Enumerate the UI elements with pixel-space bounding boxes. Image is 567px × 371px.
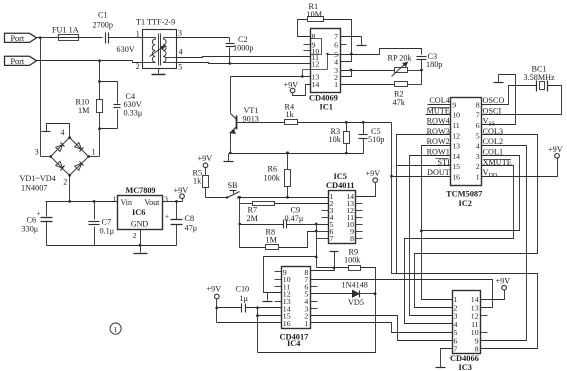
IC2 left label stub wires COL4 MUTE ROW4 [428,104,451,106]
svg-text:1N4007: 1N4007 [21,183,47,192]
svg-text:IC5: IC5 [334,172,348,181]
wire: ROW1 down to IC3 pin 3 [410,156,453,316]
wire: branch down to bottom loop [257,316,259,353]
svg-text:VD5: VD5 [348,298,364,307]
svg-text:ROW2: ROW2 [427,137,450,146]
wire: IC6 GND pin 2 down to bottom rail and ground [140,230,142,253]
potentiometer RP 20k [395,68,408,73]
resistor R2 47k [395,82,408,87]
svg-text:IC2: IC2 [459,199,473,208]
bottom supply rail [47,245,177,247]
svg-text:47k: 47k [393,98,406,107]
svg-text:C7: C7 [102,217,112,226]
IC U1: CD4069 IC1 body [311,29,341,93]
svg-text:1: 1 [334,80,338,89]
wire: pins5/6 node down, pin7 stub, to R9 line [316,232,318,268]
capacitor C9 0.47u [240,224,284,226]
wire: VD5 node down and around IC4 bottom [258,294,376,353]
wire: SB to IC5 pin 1 [239,197,329,199]
svg-text:3: 3 [164,195,168,204]
svg-text:+9V: +9V [174,186,189,195]
terminal +9V above R5 [203,163,208,168]
svg-text:+9V: +9V [548,145,563,154]
IC5 pin 4 nc stub [322,217,329,219]
svg-text:630V: 630V [117,45,135,54]
svg-text:+9V: +9V [366,169,381,178]
svg-text:C6: C6 [27,215,37,224]
svg-text:4: 4 [179,48,183,57]
node: R6 bottom junction [286,196,289,199]
node: C9 wire start [238,223,241,226]
wire: OSCO pin8 to crystal [482,86,537,105]
wire: STI joins ROW3 vertical [397,165,451,167]
wire: vertical from P1 junction down to bridge node 3 [40,38,42,157]
wire: IC1 pin 5 jog right [341,54,380,56]
wire: vertical from P2 line down through R10 [98,59,101,62]
svg-text:1μ: 1μ [240,294,249,303]
svg-text:14: 14 [312,80,320,89]
node: pin3/pin2 junction [350,69,353,72]
svg-text:8: 8 [476,100,480,109]
port P1 (upper mains input connector) [5,33,37,42]
svg-text:100k: 100k [344,255,361,264]
T1 adjustable-core arrow [150,47,164,57]
IC1 internal link pin5 to pin13 node [328,54,340,56]
wire: line A to IC4 pin12/ground [264,257,317,293]
svg-text:CD4011: CD4011 [326,181,354,190]
svg-text:0.47μ: 0.47μ [285,214,304,223]
resistor R7 2M [253,202,275,206]
wire: rectified + rail to IC6 Vin [46,201,118,203]
wire: IC4 pin 1 to IC3 pin 5 [311,323,453,333]
regulator IC6 MC7809 [118,196,163,230]
ground under T1 center tap [158,69,160,74]
wire: node 2 down to rectified rail [69,176,71,202]
svg-text:1: 1 [136,29,140,38]
capacitor C1 2700p [105,33,107,44]
svg-text:330μ: 330μ [22,225,39,234]
node: bridge output on rail [68,200,71,203]
wire: +9V down to C10 line and pin 16 [216,299,218,323]
wire: IC1 pin 1 to R2 [341,84,395,86]
terminal +9V at Vdd pin1 [482,159,558,177]
svg-text:180p: 180p [426,60,442,69]
wire: R9 right lead down to VD5 cathode node [361,268,376,294]
wire: R4 to R3/C5 line and bundle [298,122,392,124]
node: pin15/bottom-loop branch [256,314,259,317]
svg-text:+9V: +9V [198,154,213,163]
svg-text:1000p: 1000p [233,43,253,52]
capacitor C10 1u [217,307,242,309]
node: R3 top [345,121,348,124]
switch SB (pushbutton) [206,197,228,199]
svg-text:C8: C8 [185,214,195,223]
svg-text:2700p: 2700p [93,21,113,30]
node: T-bar/IC4 pin8 junction on R9 line [333,266,336,269]
wire: IC1 pin 7 to ground [341,36,362,38]
transistor VT1 9013 [230,77,232,114]
svg-text:16: 16 [452,173,460,182]
svg-text:2: 2 [133,231,137,240]
wire: crystal to OSCI pin7 [482,86,562,115]
svg-text:GND: GND [131,220,149,229]
diode VD5 1N4148 [311,293,353,295]
figure number circled 1 [110,323,121,334]
node: COL1 line tee on ROW2 vertical [420,230,423,233]
svg-text:C1: C1 [98,11,108,20]
svg-text:BC1: BC1 [532,65,547,74]
wire: IC4 pin 8 to R9 line [311,268,335,271]
svg-text:12: 12 [312,60,320,69]
wire: junction down to bridge node 1 [99,129,101,157]
resistor R3 10k [346,123,348,132]
wire: R8 right up to pin 6 line [279,232,317,248]
IC3 right nc stubs pins 12 and 10 [481,315,488,317]
overline on MUTE [429,107,450,109]
wire: IC1 pin 2 jog up to pin 3 [341,71,352,77]
svg-text:1: 1 [476,173,480,182]
node: C8 branch [175,200,178,203]
IC U4: CD4017 IC4 body [282,267,311,329]
svg-text:DOUT: DOUT [427,168,450,177]
ground on emitter line [228,154,230,162]
svg-text:510p: 510p [368,135,384,144]
resistor R10 1M [97,100,103,113]
svg-text:8: 8 [350,234,354,243]
wire: left vertical of R7/R8 net [239,198,241,248]
IC1 pin 6 nc stub [341,44,347,46]
svg-text:3: 3 [178,29,182,38]
wire: COL2 pin4 down to IC3 pin 9 [481,146,527,341]
node: C5 top [362,121,365,124]
IC5 right nc stubs pins 13-8 [356,203,363,205]
svg-text:7: 7 [476,111,480,120]
node: R1/pin5 junction [350,53,353,56]
capacitor C3 180p [417,56,427,58]
svg-text:10k: 10k [329,135,342,144]
svg-text:5: 5 [476,131,480,140]
overline on XMUTE [484,159,511,161]
svg-text:IC6: IC6 [132,208,146,217]
svg-text:2: 2 [476,162,480,171]
svg-text:OSCO: OSCO [483,96,505,105]
svg-text:R6: R6 [268,165,278,174]
terminal +9V at IC6 output [182,199,184,202]
terminal +9V to IC5 pin 14 [373,178,378,183]
svg-text:1k: 1k [286,110,295,119]
svg-text:12: 12 [452,131,460,140]
svg-text:3: 3 [476,152,480,161]
overline on STI [436,158,449,160]
wire: ROW2 down to IC3 pin 1 [422,146,453,300]
wire: emitter/ground line y153 [231,153,364,155]
svg-text:IC4: IC4 [287,339,301,348]
svg-text:13: 13 [452,142,460,151]
svg-text:+: + [37,210,41,218]
node: C2 bottom on pin-12 wire [228,62,231,65]
node: pin13 internal tap [301,75,304,78]
svg-text:8: 8 [475,345,479,354]
wire: T1 pin 5 to IC1 pin 12 [177,63,311,64]
svg-text:9: 9 [452,100,456,109]
IC4 left nc stubs pins 9,10,11,13 [275,271,282,273]
capacitor C2 1000p [229,38,231,43]
svg-text:0.33μ: 0.33μ [124,108,143,117]
node: line-A tee [315,256,318,259]
svg-text:SB: SB [228,181,239,190]
capacitor C5 510p [363,123,365,135]
svg-text:14: 14 [452,152,460,161]
IC1 pin 9 nc stub [304,44,311,46]
svg-text:1M: 1M [78,106,90,115]
svg-text:RP 20k: RP 20k [388,53,413,62]
wire: IC1 pin 3 to RP [341,70,395,72]
resistor R8 1M [240,247,266,249]
resistor R5 1k [205,168,207,176]
resistor R6 100k [287,153,289,170]
svg-text:Vin: Vin [121,198,133,207]
diode VD4 (lower-right arm) [75,163,82,170]
node: C10/pin15 branch [256,306,259,309]
svg-text:Port: Port [11,57,25,66]
wire: R1 right lead down to pin5/pin4 node [324,20,352,55]
wire: R1 left lead to IC1 pin 8 [298,20,311,37]
IC1 internal bracket around pins 9-10 [311,39,322,55]
node: R10/C4 bottom junction [98,127,101,130]
node: junction at P1 output [39,36,42,39]
IC1 pin 10 nc stub [304,50,311,52]
svg-text:CD4069: CD4069 [309,94,338,103]
svg-text:2: 2 [63,177,67,186]
wire: C1 to T1 pin 1 [109,37,143,39]
svg-text:OSCI: OSCI [483,106,502,115]
diode VD1 (upper-left arm) [56,145,63,152]
node: R10/C4 top branch [98,80,101,83]
svg-text:+9V: +9V [207,284,222,293]
svg-text:+9V: +9V [496,276,511,285]
svg-text:1: 1 [92,148,96,157]
svg-text:Port: Port [11,34,25,43]
svg-text:2M: 2M [247,214,259,223]
terminal +9V at IC3 pin 14 [502,285,507,290]
svg-text:6: 6 [476,121,480,130]
svg-text:Vout: Vout [144,198,160,207]
svg-text:TCM5087: TCM5087 [446,190,482,199]
svg-text:1: 1 [304,319,308,328]
IC5 pin 3 nc stub [322,210,329,212]
svg-text:COL4: COL4 [429,96,449,105]
svg-text:100k: 100k [264,173,281,182]
svg-text:47μ: 47μ [185,223,198,232]
node: DOUT/R4-line junction [390,175,393,178]
wire: COL1 pin3 loop to ROW2 vertical [422,156,520,231]
capacitor C7 0.1u [93,200,96,203]
svg-text:+: + [165,213,169,221]
svg-text:FU1 1A: FU1 1A [52,26,79,35]
wire: R4 line vertical down and loop to IC3 pin 8 [392,123,538,349]
wire: VT1 base to R4 [238,122,285,124]
wire: IC6 Vout to +9V terminal [163,201,183,203]
svg-text:6: 6 [334,41,338,50]
wire: FU1 to C1 [79,37,103,39]
ground tick at IC4 pin 13 area [267,293,269,301]
wire: P1 tip to fuse FU1 [37,37,59,39]
svg-text:9013: 9013 [243,114,259,123]
wire: T1 pin 3 to C2 top [177,37,230,39]
wire: P2 to T1 pin 2 (lower mains line) [37,60,133,62]
capacitor C6 330u electrolytic [46,202,48,217]
wire: T1 pin 4 to IC1 pin 11 [177,57,311,58]
svg-text:11: 11 [452,121,460,130]
svg-text:3.58MHz: 3.58MHz [524,73,556,82]
wire: XMUTE pin2 loop to IC3 pin 4 [405,166,514,324]
svg-text:7: 7 [330,234,334,243]
svg-text:IC1: IC1 [320,103,334,112]
svg-text:4: 4 [61,128,65,137]
resistor R4 1k [285,120,298,125]
svg-text:1N4148: 1N4148 [342,281,368,290]
terminal +9V left of C10 [215,294,220,299]
svg-text:16: 16 [283,319,291,328]
T1 secondary winding (right coil) [163,39,166,62]
wire: ROW3 + STI common vertical down to pin8 loop [397,135,451,274]
node: IC5 pin5/6 tie [315,223,318,226]
svg-text:2: 2 [136,62,140,71]
diode VD2 (upper-right arm) [75,143,82,150]
svg-text:10M: 10M [307,10,323,19]
resistor R1 10M [308,17,324,22]
resistor R9 100k [317,267,349,269]
port P2 (lower mains input connector) [5,56,37,65]
svg-text:C10: C10 [236,284,250,293]
IC U3: CD4066 IC3 body [453,291,481,354]
IC4 right nc stubs pins 6,4,3 [311,286,318,288]
capacitor C4 0.33u 630V [114,104,121,106]
svg-text:1M: 1M [266,235,278,244]
wire: IC1 pin 4 jog up to pin5 node [341,55,352,62]
wire: pin5 line up-right toward C3 [380,49,422,55]
svg-text:1: 1 [112,195,116,204]
svg-text:CD4066: CD4066 [450,354,479,363]
node: VD5/R9 junction [374,292,377,295]
svg-text:3: 3 [35,148,39,157]
wire: COL3 pin5 loop to IC3 pin 2 [415,135,538,308]
svg-text:1k: 1k [193,177,202,186]
svg-text:0.1μ: 0.1μ [100,226,115,235]
svg-text:T1 TTF-2-9: T1 TTF-2-9 [136,18,175,27]
svg-text:VD1~VD4: VD1~VD4 [20,174,56,183]
terminal +9V to IC1 pin 14 [290,88,295,93]
wire: node 4 loop to chassis tick [47,124,70,138]
svg-text:1: 1 [114,325,118,334]
fuse FU1 1A [59,35,79,41]
diode VD3 (lower-left arm) [56,161,63,168]
svg-text:10: 10 [452,111,460,120]
svg-text:5: 5 [178,62,182,71]
wire: IC3 pin 7 to ground [441,349,453,368]
svg-text:MC7809: MC7809 [126,186,156,195]
svg-text:15: 15 [452,162,460,171]
wire: DOUT to R3/C5 vertical [392,176,451,178]
svg-text:4: 4 [476,142,480,151]
IC U2: TCM5087 IC2 body [451,98,482,186]
IC U5: CD4011 IC5 body [329,191,356,244]
node: RP/C3 junction [420,69,423,72]
capacitor C8 47u electrolytic [176,202,178,220]
wire: IC4 pin 2 to IC3 pin 6 [311,316,453,341]
transformer T1 TTF-2-9 [143,30,177,69]
wire: IC1 pin 13 from VT1 collector [231,76,311,78]
T-bar contact above R9 line [330,251,339,253]
svg-text:+9V: +9V [284,80,299,89]
wire: RP to C3 vertical [408,70,422,72]
svg-text:IC3: IC3 [459,363,473,371]
svg-text:7: 7 [454,345,458,354]
wire: Vss pin6 to ground [482,75,516,125]
wire: IC4 pin 7 to IC3 pin 13 [311,280,493,308]
T1 primary winding (left coil) [152,39,155,62]
T1 core lines [158,34,160,66]
bridge rectifier VD1~VD4 1N4007 (diamond) [51,138,89,176]
svg-text:COL2: COL2 [483,137,503,146]
